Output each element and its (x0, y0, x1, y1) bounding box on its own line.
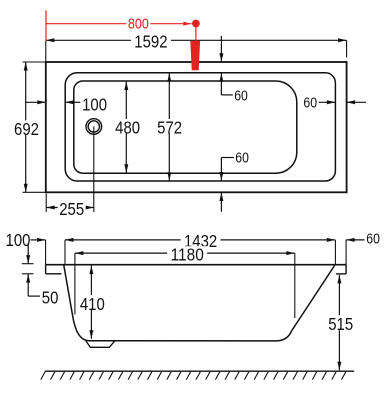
svg-text:1180: 1180 (171, 245, 204, 265)
svg-text:692: 692 (14, 119, 39, 139)
svg-text:60: 60 (235, 151, 249, 167)
svg-text:60: 60 (234, 88, 248, 104)
svg-text:50: 50 (42, 288, 59, 308)
svg-text:60: 60 (366, 231, 380, 247)
svg-text:480: 480 (115, 117, 140, 137)
svg-text:800: 800 (128, 16, 149, 32)
svg-text:515: 515 (328, 314, 353, 334)
svg-text:410: 410 (80, 294, 105, 314)
svg-text:60: 60 (303, 95, 317, 111)
svg-text:100: 100 (6, 230, 31, 250)
svg-text:255: 255 (59, 199, 84, 219)
svg-text:1592: 1592 (134, 32, 167, 52)
svg-text:572: 572 (157, 117, 182, 137)
svg-text:100: 100 (82, 94, 107, 114)
